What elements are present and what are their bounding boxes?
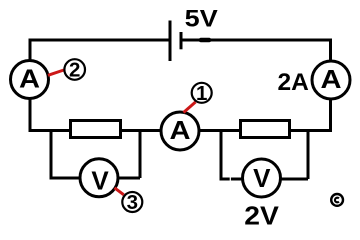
svg-text:3: 3 xyxy=(127,191,138,214)
svg-text:5V: 5V xyxy=(185,6,219,33)
battery B1 long plate xyxy=(169,21,172,62)
battery B1 short plate xyxy=(180,32,183,49)
red leader line to label 3 xyxy=(115,188,124,195)
copyright symbol xyxy=(331,194,343,206)
svg-text:2: 2 xyxy=(69,59,80,82)
wire top-right (battery to right corner) xyxy=(181,39,330,42)
voltmeter V left xyxy=(80,159,118,197)
ammeter A middle xyxy=(161,112,199,150)
svg-text:1: 1 xyxy=(196,82,207,105)
wire middle-right segment xyxy=(198,129,332,132)
wire right voltmeter loop xyxy=(220,131,309,180)
svg-text:V: V xyxy=(253,163,271,193)
wire right vertical lower xyxy=(329,99,332,132)
wire middle-left segment xyxy=(29,129,163,132)
svg-text:2V: 2V xyxy=(244,203,279,231)
circled label 2 xyxy=(64,59,85,82)
circled label 1 xyxy=(192,82,212,105)
wire left voltmeter loop xyxy=(50,131,141,179)
svg-text:A: A xyxy=(321,64,342,94)
svg-text:A: A xyxy=(19,64,40,94)
wire left vertical upper xyxy=(29,39,32,61)
ammeter A right xyxy=(312,61,350,99)
svg-text:V: V xyxy=(91,166,109,196)
wire left vertical lower xyxy=(29,99,32,133)
resistor R2 (right) xyxy=(241,121,290,138)
wire top-left (left corner to battery) xyxy=(30,39,169,42)
red leader line to label 2 xyxy=(48,70,64,75)
wire right vertical upper xyxy=(329,39,332,62)
resistor R1 (left) xyxy=(71,121,121,138)
circled label 3 xyxy=(122,191,142,214)
ammeter A left xyxy=(11,61,49,99)
red leader line to label 1 xyxy=(184,102,196,113)
voltmeter V right xyxy=(243,159,281,197)
svg-text:2A: 2A xyxy=(278,69,310,96)
svg-text:A: A xyxy=(170,115,191,145)
wire junction blob on top-right wire xyxy=(201,38,209,43)
